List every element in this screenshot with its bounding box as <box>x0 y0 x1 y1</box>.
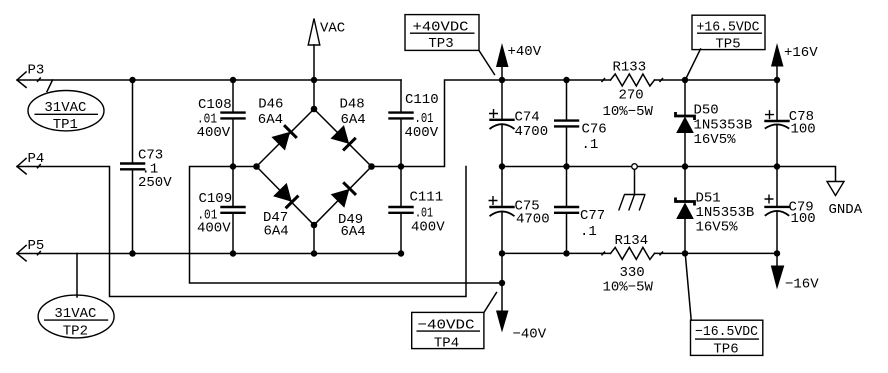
power arrow -16V <box>771 266 819 293</box>
diode D47 <box>274 184 299 209</box>
svg-text:−16.5VDC: −16.5VDC <box>695 324 758 340</box>
junction C77 bottom on -40V rail <box>563 250 569 256</box>
svg-text:16V5%: 16V5% <box>696 219 739 235</box>
svg-text:−16V: −16V <box>785 277 819 293</box>
resistor R133 <box>602 60 663 121</box>
svg-text:TP5: TP5 <box>715 36 740 52</box>
junction VAC line on top rail <box>311 77 317 83</box>
svg-text:16V5%: 16V5% <box>694 132 737 148</box>
test point box TP4 -40VDC <box>412 293 497 352</box>
svg-text:31VAC: 31VAC <box>54 306 96 322</box>
node bridge top (AC) <box>311 106 318 113</box>
svg-text:R134: R134 <box>615 233 649 249</box>
svg-text:P4: P4 <box>28 151 45 167</box>
capacitor C77 <box>554 167 605 254</box>
svg-text:D48: D48 <box>340 97 365 113</box>
svg-text:P5: P5 <box>28 238 45 254</box>
capacitor C111 <box>388 167 445 254</box>
ground chassis symbol <box>619 164 646 211</box>
capacitor C79 <box>764 167 815 266</box>
svg-text:C77: C77 <box>580 208 605 224</box>
capacitor C73 <box>120 80 172 254</box>
capacitor C108 <box>197 80 246 167</box>
junction C110-C111 on bridge right-node wire <box>398 163 404 169</box>
svg-text:P3: P3 <box>28 63 45 79</box>
svg-text:C110: C110 <box>405 92 439 108</box>
junction C108 top on VAC rail <box>230 77 236 83</box>
wire mid GND rail <box>502 167 836 182</box>
zener diode D51 <box>676 167 755 254</box>
svg-text:D50: D50 <box>694 103 719 119</box>
capacitor C74 <box>489 80 548 167</box>
junction C76 top on +40V rail <box>563 77 569 83</box>
capacitor C76 <box>554 80 607 167</box>
junction C78-C79 on GND rail <box>774 163 780 169</box>
junction C76-C77 on GND rail <box>563 163 569 169</box>
svg-text:+16.5VDC: +16.5VDC <box>697 19 760 35</box>
zener diode D50 <box>676 80 753 167</box>
junction bridge bottom on P5 rail <box>311 250 317 256</box>
svg-text:6A4: 6A4 <box>341 112 366 128</box>
svg-text:C111: C111 <box>410 190 444 206</box>
svg-text:−40V: −40V <box>513 327 547 343</box>
capacitor C75 <box>489 167 550 311</box>
junction C74 / +40V arrow <box>499 77 505 83</box>
junction D50-D51 on GND rail <box>682 163 688 169</box>
svg-text:TP1: TP1 <box>53 117 78 133</box>
svg-text:−40VDC: −40VDC <box>418 317 475 333</box>
test point TP1 ellipse <box>28 80 104 133</box>
node bridge left (-40V out) <box>253 163 260 170</box>
svg-text:400V: 400V <box>411 220 445 236</box>
svg-text:D46: D46 <box>258 97 283 113</box>
wire bridge diamond edges <box>257 109 372 225</box>
wire bridge bottom to AC rail <box>313 225 315 254</box>
svg-text:400V: 400V <box>405 125 439 141</box>
wire +40V top rail <box>502 79 777 81</box>
junction C108-C109 on bridge left-node wire <box>230 163 236 169</box>
test point box TP5 +16.5VDC <box>687 15 766 77</box>
svg-text:+40VDC: +40VDC <box>413 19 469 35</box>
svg-text:C109: C109 <box>199 191 233 207</box>
svg-text:TP3: TP3 <box>428 36 453 52</box>
svg-text:+40V: +40V <box>508 44 542 60</box>
svg-text:100: 100 <box>791 211 816 227</box>
node bridge bottom (AC) <box>311 222 318 229</box>
off-page connector VAC <box>308 19 345 110</box>
svg-text:270: 270 <box>619 88 644 104</box>
svg-text:400V: 400V <box>197 125 231 141</box>
junction C79 bottom / -16V arrow <box>774 250 780 256</box>
ground arrow GNDA <box>827 182 863 219</box>
test point box TP6 -16.5VDC <box>686 257 763 358</box>
svg-text:400V: 400V <box>197 221 231 237</box>
capacitor C109 <box>197 167 246 254</box>
capacitor C78 <box>764 80 815 167</box>
svg-text:D51: D51 <box>696 190 721 206</box>
svg-text:4700: 4700 <box>515 124 549 140</box>
connector P4 <box>17 151 44 174</box>
svg-text:250V: 250V <box>138 175 172 191</box>
test point box TP3 +40VDC <box>405 15 495 75</box>
svg-text:10%−5W: 10%−5W <box>603 104 654 120</box>
svg-text:4700: 4700 <box>516 212 550 228</box>
junction C73 top on VAC rail <box>129 77 135 83</box>
junction D51 bottom on -16V rail <box>682 250 688 256</box>
power arrow +40V <box>496 43 542 80</box>
diode D49 <box>331 182 356 207</box>
svg-text:6A4: 6A4 <box>258 112 283 128</box>
capacitor C110 <box>388 80 438 167</box>
svg-text:.1: .1 <box>582 137 599 153</box>
svg-text:C76: C76 <box>582 122 607 138</box>
svg-text:TP4: TP4 <box>434 335 459 351</box>
junction bridge-left wire to -40V line <box>499 280 505 286</box>
svg-text:6A4: 6A4 <box>264 224 289 240</box>
svg-text:VAC: VAC <box>320 21 345 37</box>
svg-text:R133: R133 <box>613 60 647 76</box>
connector P3 <box>17 63 44 88</box>
junction C75 bottom on -40V rail <box>499 250 505 256</box>
power arrow -40V <box>496 311 547 343</box>
svg-text:GNDA: GNDA <box>829 202 863 218</box>
svg-text:+16V: +16V <box>784 45 818 61</box>
junction C109 bottom on P5 rail <box>230 250 236 256</box>
svg-text:TP6: TP6 <box>713 341 738 357</box>
resistor R134 <box>602 233 663 295</box>
wire top rail from P3 to C110 corner <box>17 79 401 81</box>
wire bridge left node to -40V rail <box>190 167 503 284</box>
svg-text:6A4: 6A4 <box>341 224 366 240</box>
diode D48 <box>331 126 356 151</box>
wire bridge right node to +40V rail <box>372 80 503 167</box>
junction C78 top / +16V arrow <box>774 77 780 83</box>
test point TP2 ellipse <box>38 254 114 340</box>
svg-text:TP2: TP2 <box>63 324 88 340</box>
junction C73 bottom on P5 rail <box>129 250 135 256</box>
diode D46 <box>272 125 297 150</box>
junction D50 top on +40V rail <box>682 77 688 83</box>
connector P5 <box>17 238 44 261</box>
svg-text:100: 100 <box>791 122 816 138</box>
wire P4 to bridge right node (down, across, up) <box>17 167 466 297</box>
svg-text:10%−5W: 10%−5W <box>603 280 654 296</box>
junction C74-C75 on GND rail <box>499 163 505 169</box>
node bridge right (+40V out) <box>368 163 375 170</box>
wire P5 bottom AC rail <box>17 253 401 255</box>
junction C111 bottom on P5 rail <box>398 250 404 256</box>
svg-text:.1: .1 <box>580 224 597 240</box>
wire -40V rail <box>502 252 777 254</box>
power arrow +16V <box>771 43 818 80</box>
svg-text:31VAC: 31VAC <box>44 100 86 116</box>
